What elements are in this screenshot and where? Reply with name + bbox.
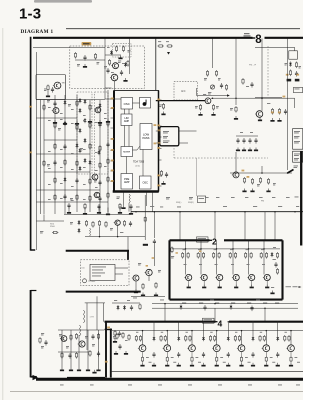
label [48, 150, 51, 153]
inner rail wire [35, 52, 37, 250]
ground blob [287, 79, 292, 82]
label [173, 361, 176, 364]
resistor [135, 335, 137, 342]
wire vert [196, 158, 198, 196]
highlight mark [157, 99, 160, 101]
transistor [184, 274, 191, 280]
wire [36, 220, 64, 222]
wire drop x236 [235, 39, 237, 106]
wire drop [244, 212, 246, 240]
label [138, 263, 141, 265]
AFC text [181, 90, 186, 93]
label [247, 263, 250, 266]
resistor [76, 100, 78, 107]
wire in TR7 box [47, 91, 49, 94]
to-diagram-8 label [255, 34, 262, 46]
capacitor [129, 221, 132, 227]
resistor [162, 103, 164, 110]
resistor [278, 108, 280, 115]
resistor [107, 120, 109, 127]
diode [64, 121, 67, 126]
wire col [87, 330, 89, 368]
resistor [144, 216, 146, 223]
label [231, 263, 234, 266]
label [160, 206, 163, 209]
label [278, 384, 282, 387]
wire drop [264, 308, 266, 321]
resistor [89, 350, 91, 357]
label [216, 106, 219, 108]
capacitor [242, 138, 245, 144]
IC pin [111, 98, 115, 100]
section 2 box top b [224, 239, 283, 241]
transistor Q204 [145, 269, 153, 275]
junction [216, 330, 218, 332]
label [223, 205, 227, 208]
highlight mark [158, 130, 161, 132]
wire [105, 98, 130, 100]
capacitor [63, 144, 66, 150]
label [216, 196, 219, 199]
page edge shadow [2, 28, 3, 400]
label [83, 166, 86, 169]
wire stub [117, 225, 119, 236]
wire col box4b [178, 322, 180, 336]
resistor [266, 252, 268, 259]
resistor [212, 104, 214, 111]
label FM [261, 201, 264, 203]
svg-text:MIXER: MIXER [123, 152, 130, 154]
label [160, 299, 164, 302]
diode [84, 138, 87, 143]
wire vert [235, 152, 237, 172]
wire [148, 276, 150, 281]
resistor [215, 70, 217, 77]
IC pin [111, 117, 115, 119]
label [218, 78, 221, 80]
junction [274, 211, 276, 213]
label [163, 136, 168, 138]
highlight mark [242, 170, 245, 172]
svg-text:(1/2): (1/2) [136, 165, 140, 167]
wire row [58, 351, 88, 353]
wire [123, 192, 125, 206]
label [66, 346, 69, 348]
left bracket top serif [31, 290, 37, 292]
resistor [129, 194, 130, 203]
resistor [216, 356, 218, 363]
wire [255, 96, 282, 98]
resistor [94, 53, 96, 60]
transistor Q5 [114, 220, 121, 225]
ground [98, 120, 102, 124]
label [183, 248, 186, 251]
IF block box [160, 127, 179, 146]
label [48, 106, 51, 109]
highlight mark [111, 107, 114, 109]
label [97, 62, 100, 64]
resistor [116, 333, 118, 340]
wire [153, 212, 155, 238]
resistor [251, 178, 253, 185]
wire [153, 245, 155, 266]
label [44, 89, 47, 91]
junction [232, 248, 234, 250]
IC pin [159, 159, 162, 161]
resistor [295, 62, 297, 69]
heavy bus CD top [66, 250, 129, 252]
resistor [74, 52, 76, 59]
diode [98, 150, 101, 155]
section 4 box top b [229, 321, 303, 323]
junction [277, 321, 279, 323]
wire col box2 [200, 240, 202, 274]
junction [135, 211, 137, 213]
section 4 left stub [105, 329, 113, 331]
wire row [152, 303, 298, 305]
resistor [229, 252, 231, 259]
capacitor [227, 352, 230, 358]
label [48, 198, 51, 201]
wire col box2 [232, 240, 234, 274]
label [231, 196, 235, 199]
capacitor [177, 352, 180, 358]
page-top bleed smudge [34, 0, 92, 3]
IC pin [111, 138, 115, 140]
capacitor [53, 101, 56, 107]
component box [289, 51, 298, 59]
resistor [99, 145, 101, 152]
wire stub [235, 281, 237, 287]
svg-text:AMP: AMP [124, 120, 130, 123]
label [296, 384, 300, 387]
capacitor [98, 180, 101, 186]
section 4 box top [105, 321, 216, 323]
resistor [123, 220, 125, 227]
label [204, 78, 207, 80]
wire stub [68, 206, 70, 210]
label [71, 152, 74, 155]
ground [236, 148, 240, 152]
label [210, 299, 214, 302]
label [92, 266, 106, 269]
resistor [97, 333, 99, 340]
resistor [271, 108, 273, 115]
IC internal wire [133, 146, 141, 150]
left bracket bus [30, 290, 32, 377]
ground [60, 368, 64, 372]
label [60, 148, 63, 151]
label [163, 141, 170, 143]
label [110, 228, 113, 230]
label [198, 361, 201, 364]
transistor block box [36, 75, 66, 100]
label [223, 361, 226, 364]
transistor Q6 [91, 174, 98, 180]
ground [63, 121, 67, 125]
trimmer circle [210, 85, 214, 89]
resistor [75, 352, 77, 359]
label [77, 64, 80, 66]
svg-text:1-3: 1-3 [19, 6, 41, 23]
resistor [218, 252, 220, 259]
IC label2 [136, 165, 140, 167]
resistor [242, 78, 244, 85]
label [114, 299, 117, 302]
label [158, 384, 162, 387]
junction [261, 172, 263, 174]
label [71, 122, 74, 125]
wire w/ arrow [197, 94, 230, 97]
resistor [105, 221, 107, 228]
component box UHF [293, 129, 303, 150]
frame left foot [31, 249, 36, 251]
IC pin [111, 108, 115, 110]
wire [255, 46, 295, 48]
label FM(R) [188, 202, 194, 204]
IC internal wire [142, 150, 144, 177]
bottom heavy rule [36, 378, 303, 381]
label [118, 61, 121, 63]
ground [242, 189, 246, 193]
wire col x44 [43, 100, 45, 215]
junction [99, 236, 101, 238]
svg-text:PASS: PASS [143, 136, 150, 140]
ground [239, 363, 243, 367]
wire row [36, 189, 100, 191]
label [128, 50, 131, 52]
wire row [36, 117, 77, 119]
capacitor [129, 204, 132, 210]
wire col box4 [191, 331, 193, 345]
svg-text:FM(L): FM(L) [176, 202, 182, 204]
resistor [98, 220, 100, 227]
section 2 box top [170, 239, 210, 241]
label [83, 114, 86, 117]
svg-text:OSC: OSC [142, 181, 148, 184]
left bracket bottom serif [31, 376, 37, 378]
resistor [89, 195, 91, 202]
highlight mark [157, 125, 160, 127]
label [83, 119, 86, 122]
label [214, 248, 217, 251]
label [299, 66, 302, 68]
label [60, 118, 63, 121]
label [246, 248, 249, 251]
label [235, 331, 237, 334]
resistor [128, 334, 130, 341]
label [272, 196, 275, 199]
label [247, 302, 251, 305]
right heavy bus [300, 151, 302, 246]
TU conn text [88, 281, 95, 283]
junction [167, 330, 169, 332]
IC OSC2 box [140, 176, 152, 189]
ground [258, 118, 262, 122]
ground [113, 339, 117, 343]
ground [276, 363, 280, 367]
ground [165, 363, 169, 367]
transistor Q202 [255, 111, 263, 118]
junction [244, 211, 246, 213]
component box DELAY [293, 151, 303, 162]
label [71, 185, 74, 188]
wire stub [251, 281, 253, 287]
junction [264, 307, 266, 309]
wire col box4 [166, 331, 168, 345]
pill text [83, 43, 90, 44]
wire [144, 195, 146, 240]
ground [46, 94, 50, 98]
transistor Q301 [60, 336, 67, 342]
wire drop [264, 212, 266, 240]
label [256, 299, 260, 302]
label [267, 102, 270, 105]
diode [153, 336, 156, 341]
wire [156, 142, 160, 144]
transistor [263, 274, 270, 280]
label [80, 148, 83, 150]
resistor [259, 335, 261, 342]
tuner dashed box [70, 46, 145, 89]
label [60, 112, 63, 115]
CD inner box [90, 264, 115, 280]
ground [161, 181, 165, 185]
ground [77, 368, 81, 372]
resistor [52, 231, 58, 233]
ground [88, 119, 92, 123]
capacitor [75, 178, 78, 184]
resistor [290, 356, 292, 363]
CD dashed box [81, 260, 130, 286]
resistor [203, 252, 205, 259]
ground [211, 112, 215, 116]
diode [79, 98, 82, 103]
section 4 left edge B [110, 329, 112, 378]
IC LOW PASS box [140, 124, 152, 150]
resistor [142, 283, 144, 290]
wire drop [274, 212, 276, 240]
IC internal wire [133, 102, 140, 104]
ground [53, 120, 57, 124]
wire drop x262 [261, 98, 263, 111]
wire col x103.5 [103, 303, 105, 322]
transistor [215, 274, 222, 280]
resistor [122, 46, 124, 53]
label [95, 107, 98, 110]
wire [128, 203, 130, 212]
ground [140, 363, 144, 367]
resistor [160, 335, 162, 342]
label [71, 168, 74, 171]
highlight mark [111, 180, 114, 182]
label [60, 182, 63, 185]
label [125, 339, 128, 342]
resistor [115, 46, 117, 53]
diode [84, 158, 87, 163]
ground [161, 112, 165, 116]
capacitor [118, 331, 121, 337]
ground [250, 189, 254, 193]
resistor [276, 268, 278, 275]
label [273, 183, 276, 185]
resistor [99, 162, 101, 169]
highlight mark [199, 251, 201, 253]
title 1-3 [19, 6, 41, 23]
wire col box4b [252, 322, 254, 336]
wire [115, 273, 123, 275]
diode [117, 305, 120, 310]
wire row [36, 201, 108, 203]
resistor [89, 143, 91, 150]
label [208, 92, 211, 94]
resistor [250, 252, 252, 259]
resistor [276, 252, 278, 259]
wire col box4 [290, 331, 292, 345]
wire row [64, 213, 131, 215]
highlight mark [29, 152, 32, 154]
label [92, 344, 95, 346]
label [295, 356, 298, 359]
section 4 note [203, 318, 215, 323]
wire col box2 [216, 240, 218, 274]
resistor [108, 59, 110, 66]
wire col box4 [142, 331, 144, 345]
label [285, 331, 287, 334]
ground [277, 118, 281, 122]
wire stub [216, 352, 218, 356]
resistor [158, 45, 164, 47]
ground [121, 205, 125, 209]
wire row y296 [131, 295, 165, 297]
label [111, 71, 114, 74]
resistor [76, 124, 78, 131]
capacitor [152, 352, 155, 358]
ground [289, 363, 293, 367]
label [104, 117, 107, 120]
box4 inner rail [111, 370, 303, 372]
transistor Q7 [93, 192, 100, 197]
ground blob [295, 79, 300, 82]
label [285, 63, 288, 65]
IC pin [111, 150, 115, 152]
highlight mark [157, 147, 160, 149]
label [104, 165, 107, 168]
bottom box4 bus [67, 377, 105, 379]
label [71, 199, 74, 202]
label [220, 356, 223, 359]
IC xtal glyph [143, 100, 147, 106]
transistor [212, 345, 220, 352]
label [83, 183, 86, 186]
capacitor [153, 239, 156, 245]
resistor [191, 356, 193, 363]
diode [78, 228, 81, 233]
IC OSC text [124, 102, 130, 106]
junction [290, 330, 292, 332]
transistor Q3 [52, 108, 59, 114]
transistor Q2 [110, 74, 118, 81]
junction [164, 303, 166, 305]
ground [86, 368, 90, 372]
label [158, 270, 161, 272]
resistor [89, 178, 91, 185]
label [92, 275, 101, 278]
resistor [85, 220, 87, 227]
label [83, 198, 86, 201]
label [263, 302, 267, 305]
resistor [84, 203, 86, 210]
